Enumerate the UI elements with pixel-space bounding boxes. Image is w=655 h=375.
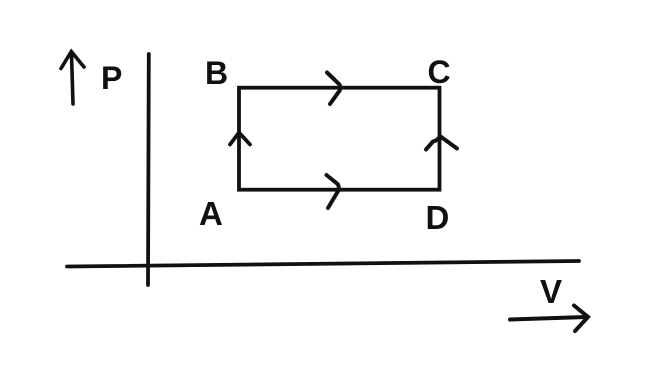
arrow B to C (top edge, rightward chevron) [327, 73, 340, 105]
P axis (vertical axis line) [146, 54, 151, 285]
V direction arrow shaft [510, 317, 586, 320]
svg-text:P: P [101, 60, 122, 96]
V axis (horizontal axis line) [67, 261, 579, 267]
arrow A to D (bottom edge, rightward chevron) [327, 175, 339, 208]
svg-text:V: V [540, 273, 562, 310]
P-axis arrow shaft [72, 54, 74, 104]
cycle rectangle ABCD [239, 88, 440, 190]
svg-text:C: C [428, 54, 451, 90]
svg-text:A: A [199, 195, 223, 232]
svg-text:B: B [205, 55, 228, 91]
arrow D to C (right edge, upward chevron) [426, 137, 457, 150]
P-axis arrowhead [61, 52, 84, 69]
arrow A to B (left edge, upward chevron) [230, 133, 250, 145]
svg-text:D: D [426, 199, 450, 236]
V direction arrowhead [574, 306, 588, 332]
